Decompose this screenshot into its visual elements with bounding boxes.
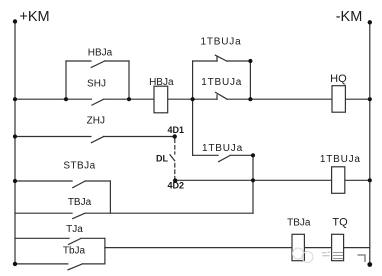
watermark hook	[358, 255, 366, 262]
svg-text:HBJa: HBJa	[149, 77, 174, 88]
svg-text:1TBUJa: 1TBUJa	[201, 77, 242, 88]
node x253 coil row	[251, 178, 255, 182]
wire ZHJ row	[15, 136, 91, 138]
node dot -KM	[368, 20, 372, 24]
node 1TBUJa block bottom right	[248, 97, 252, 101]
coil 1TBUJa	[332, 167, 345, 194]
node main junction	[191, 97, 195, 101]
HBJa block right vertical	[128, 61, 130, 99]
contact 1TBUJa row1	[193, 60, 217, 62]
1TBUJa block left vertical	[192, 61, 194, 99]
wire vertical x253	[252, 155, 254, 213]
svg-text:SHJ: SHJ	[87, 78, 106, 89]
svg-text:ZHJ: ZHJ	[87, 115, 105, 126]
svg-text:DL: DL	[156, 154, 168, 164]
wire bottom coils row	[105, 247, 370, 249]
node left bus STBJa row	[13, 179, 17, 183]
svg-text:TJa: TJa	[66, 224, 83, 235]
svg-text:HBJa: HBJa	[88, 47, 113, 58]
contact TJa	[15, 237, 69, 239]
svg-text:TbJa: TbJa	[63, 245, 86, 256]
svg-text:4D1: 4D1	[168, 125, 185, 135]
watermark circles	[293, 248, 304, 259]
wire STBJa down vertical	[109, 181, 111, 213]
svg-text:4D2: 4D2	[167, 180, 184, 190]
svg-text:1TBUJa: 1TBUJa	[202, 143, 243, 154]
svg-text:TBJa: TBJa	[68, 197, 92, 208]
coil TQ	[332, 234, 344, 260]
svg-text:STBJa: STBJa	[63, 161, 95, 172]
contact TBJa	[15, 212, 72, 214]
svg-text:TBJa: TBJa	[287, 217, 311, 228]
node left bus main row	[13, 97, 17, 101]
node x253 contact row	[251, 153, 255, 157]
wire TJa block right vertical	[104, 238, 106, 264]
contact 1TBUJa row3	[193, 154, 219, 156]
wire coil row 1TBUJa	[175, 179, 332, 181]
svg-text:1TBUJa: 1TBUJa	[201, 36, 242, 47]
wire down from main junction	[192, 99, 194, 155]
node 4D1	[173, 134, 177, 138]
coil HBJa	[154, 86, 168, 113]
svg-text:1TBUJa: 1TBUJa	[320, 154, 361, 165]
node 4D2	[173, 178, 177, 182]
coil TBJa	[292, 234, 304, 260]
wire main row D	[345, 98, 369, 100]
node left bus ZHJ row	[13, 134, 17, 138]
svg-text:-KM: -KM	[336, 9, 363, 25]
node HBJa block right	[127, 97, 131, 101]
watermark strokes in TQ box	[333, 253, 343, 259]
contact STBJa	[15, 180, 72, 182]
coil HQ	[332, 86, 345, 113]
contact 1TBUJa row2	[193, 98, 217, 100]
wire main row C	[168, 98, 193, 100]
svg-text:HQ: HQ	[330, 73, 347, 85]
svg-text:+KM: +KM	[19, 9, 49, 25]
node right bus coil row	[368, 178, 372, 182]
contact HBJa	[66, 60, 91, 62]
watermark dashes	[322, 252, 330, 256]
right bus	[369, 22, 371, 264]
node right bus bottom	[367, 262, 372, 267]
node dot +KM	[13, 19, 17, 23]
wire main row A	[15, 98, 66, 100]
svg-text:TQ: TQ	[332, 216, 348, 228]
breaker DL dashed	[174, 139, 176, 154]
contact TbJa	[15, 263, 68, 265]
left bus	[14, 22, 16, 264]
node right bus main row	[368, 97, 372, 101]
wire main row B	[129, 98, 154, 100]
1TBUJa block right vertical	[249, 61, 251, 99]
node HBJa block left	[64, 97, 68, 101]
node left bus bottom	[13, 262, 17, 266]
contact SHJ	[66, 98, 91, 100]
HBJa block left vertical	[65, 61, 67, 99]
node 1TBUJa block top right	[248, 59, 252, 63]
contact ZHJ	[91, 137, 103, 143]
